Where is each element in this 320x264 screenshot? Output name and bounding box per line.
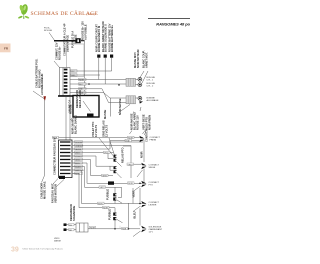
connector pair CP4 — [113, 213, 116, 216]
svg-text:CYL. 2: CYL. 2 — [147, 86, 154, 88]
label column under module L1 — [91, 122, 95, 137]
wire P2 pin4 to CP1 — [74, 152, 114, 154]
model rule line — [148, 18, 190, 20]
wire seat switch feed — [128, 163, 142, 165]
svg-text:FREIN: FREIN — [150, 140, 157, 142]
switch SW5 — [141, 226, 146, 229]
svg-text:BLEU: BLEU — [98, 203, 104, 205]
svg-text:MAG: MAG — [71, 74, 76, 77]
label drop-wire column — [80, 21, 84, 40]
FR side tab — [0, 44, 11, 53]
svg-text:ARRET MOT.: ARRET MOT. — [144, 52, 148, 68]
svg-text:BORNE BATTERIE B+: BORNE BATTERIE B+ — [110, 25, 114, 52]
svg-text:AU FUSIBLE: AU FUSIBLE — [83, 24, 87, 40]
wire P2 pin9 to PTO bus — [74, 170, 82, 204]
svg-text:NOIR: NOIR — [140, 151, 144, 158]
spark plug 1a — [136, 79, 139, 81]
svg-text:FUSIBLE: FUSIBLE — [108, 209, 112, 220]
CP1 pin2 feed — [108, 153, 113, 159]
wire P2 pin5 to CP2 — [74, 156, 114, 166]
wire: diagonal lead into main feed — [49, 33, 55, 41]
pin terminal T1 — [97, 55, 100, 58]
wire J1 row2 — [70, 74, 100, 76]
fuse F1 20A — [76, 38, 81, 43]
leaders from cluster — [140, 107, 141, 111]
wire from T2 down — [104, 58, 106, 84]
svg-text:REGULATEUR: REGULATEUR — [78, 90, 82, 108]
label right of verticals — [69, 104, 73, 114]
svg-text:LEVIER: LEVIER — [149, 205, 157, 207]
switch SW1 — [139, 136, 144, 139]
svg-text:PTO: PTO — [149, 185, 154, 187]
J1 to harness verticals — [65, 97, 67, 140]
wire bend to coil 2 top — [104, 93, 127, 98]
plug leaders — [140, 71, 144, 78]
dashed tick on fuel bus — [119, 226, 121, 229]
label fusible column — [71, 31, 75, 48]
J1 pins — [64, 69, 68, 94]
connector pair CP3 — [113, 193, 116, 196]
svg-text:RGE: RGE — [126, 141, 131, 143]
wire: battery diagonal — [33, 91, 45, 99]
svg-text:RELAIS PTO: RELAIS PTO — [121, 147, 125, 163]
svg-text:12 VOLTS: 12 VOLTS — [105, 125, 109, 137]
wire P2 pin10 to CP4 — [74, 174, 116, 208]
wire J1 row5 — [70, 88, 102, 90]
label left of module — [68, 100, 72, 113]
P2 wire label boxes — [75, 141, 83, 144]
switch SW3 — [141, 181, 146, 184]
svg-text:SOLENOIDE: SOLENOIDE — [72, 205, 76, 221]
leader in module — [83, 101, 91, 112]
svg-text:39: 39 — [11, 247, 19, 254]
P2 exit stubs — [72, 142, 75, 174]
svg-text:RANSOMES 48 po: RANSOMES 48 po — [156, 22, 190, 27]
spark plug 1b — [136, 84, 139, 86]
label CP4 — [108, 209, 112, 220]
wire: vertical drop to module — [84, 41, 86, 96]
bus y183 — [87, 182, 146, 184]
wire from T3 down — [111, 58, 113, 71]
label CP1 — [121, 147, 125, 163]
svg-text:BLEU: BLEU — [133, 211, 137, 218]
wire J1 row3 to coil 1 — [70, 79, 126, 81]
bus wire y138 — [52, 137, 143, 139]
label commutateur column B — [63, 23, 67, 56]
svg-text:CONNECTEUR FAISCEAU 10V: CONNECTEUR FAISCEAU 10V — [53, 137, 57, 175]
wire J1 row6 — [70, 92, 104, 94]
page background — [0, 0, 200, 259]
ladder foot diagonals — [53, 179, 58, 185]
svg-text:BORNE SOLENOIDE S: BORNE SOLENOIDE S — [104, 24, 108, 52]
svg-text:ROUGE 12V: ROUGE 12V — [136, 115, 140, 130]
svg-text:ROUGE: ROUGE — [69, 104, 73, 114]
solenoid feed pins — [64, 223, 67, 226]
svg-text:BORNE MAGNETO M: BORNE MAGNETO M — [97, 26, 101, 52]
svg-text:BLANC: BLANC — [75, 165, 82, 168]
CP3 stub top — [114, 187, 116, 193]
wire bend to coil 2 bottom — [102, 89, 126, 103]
svg-text:DEMARRAGE: DEMARRAGE — [66, 35, 70, 52]
svg-text:ROUGE: ROUGE — [74, 34, 78, 44]
label right top column A — [133, 52, 137, 68]
svg-text:CYL. 1: CYL. 1 — [147, 80, 154, 82]
red polarity mark — [43, 96, 46, 101]
wire label RGE — [53, 136, 59, 139]
wire: main top feed (thick) — [54, 40, 76, 42]
label P2 — [53, 137, 57, 175]
bus y203.5 — [82, 203, 147, 205]
connector J1 ladder — [60, 68, 71, 96]
svg-text:ORANGE: ORANGE — [75, 144, 84, 147]
vertical x128 — [128, 203, 130, 229]
wire J1 row1 to terminal B — [70, 70, 112, 72]
CP4 stub top — [114, 208, 116, 213]
coil leader diagonal — [118, 105, 130, 114]
svg-text:GRIS: GRIS — [102, 176, 107, 178]
svg-text:MARRON: MARRON — [75, 169, 84, 172]
connector pair CP2 — [114, 166, 117, 169]
spark plug 2 — [136, 97, 139, 99]
ignition coil 1 — [126, 78, 136, 86]
leader to SW1 — [145, 129, 147, 135]
wire labels lower — [99, 186, 106, 189]
CP2 pin2 feed — [110, 166, 113, 170]
label CP3 — [106, 189, 110, 200]
label right of module — [118, 98, 122, 115]
plug 2 terminal arrow — [139, 101, 143, 103]
leader to CP1 — [99, 138, 113, 156]
label solenoid — [69, 204, 73, 221]
svg-text:©2001 Textron Golf, Turf & Spe: ©2001 Textron Golf, Turf & Specialty Pro… — [22, 247, 63, 250]
svg-text:12 VOLTS: 12 VOLTS — [94, 125, 98, 137]
CP3 stub bottom — [114, 201, 116, 204]
wire P2 pin6 — [74, 160, 114, 176]
leader to SW3 — [133, 186, 141, 192]
svg-text:JAUNE: JAUNE — [75, 148, 82, 151]
svg-text:NOIR MOTEUR: NOIR MOTEUR — [136, 49, 140, 68]
switch SW4 — [141, 201, 146, 204]
junction dot a — [88, 83, 90, 85]
svg-text:SIEGE: SIEGE — [149, 167, 156, 169]
svg-text:(suite): (suite) — [87, 12, 95, 16]
wire battery to bottom — [42, 175, 45, 183]
switch SW2 — [141, 163, 146, 166]
regulator module box — [73, 96, 99, 118]
wire SW1 down — [143, 140, 145, 162]
svg-text:ALLUMAGE: ALLUMAGE — [147, 99, 159, 102]
key switch module outline — [67, 44, 85, 77]
solenoid output bus — [88, 228, 140, 230]
label inside module — [75, 90, 79, 108]
svg-text:RGE: RGE — [122, 229, 127, 231]
svg-text:FUSIBLE: FUSIBLE — [106, 189, 110, 200]
label pin T3 — [107, 23, 111, 52]
pin terminal T3 — [110, 55, 113, 58]
wire stub y146 — [123, 145, 131, 147]
mid vertical x133 — [132, 188, 134, 204]
label battery bottom B — [51, 183, 55, 203]
leader to CP2 — [109, 138, 116, 159]
wire P2 pin8 to CP3 — [74, 167, 122, 198]
wire from T1 down — [98, 58, 100, 80]
battery lead label column — [35, 58, 39, 88]
wire P2 pin7 to seat bus — [74, 163, 88, 183]
wire P2 pin3 to brake switch — [74, 141, 144, 150]
wire label VIO — [104, 151, 111, 154]
svg-text:VERS MOTEUR: VERS MOTEUR — [54, 184, 58, 203]
wire right of module — [110, 98, 112, 117]
mid-right label cluster — [130, 113, 134, 130]
CP4 stub bottom — [114, 220, 116, 229]
label pin T2 — [101, 21, 105, 52]
wire: fuse to corner — [81, 40, 85, 42]
leader to SW5 — [133, 231, 141, 237]
label right top column B — [141, 50, 145, 68]
leader to SW4 — [133, 206, 141, 212]
label battery bottom A — [40, 183, 44, 199]
connector pair CP1 — [114, 155, 117, 158]
svg-text:12 V: 12 V — [149, 232, 154, 234]
junction dot b — [118, 84, 120, 86]
svg-text:MASSE: MASSE — [103, 110, 107, 119]
svg-text:VIO: VIO — [104, 153, 108, 155]
svg-text:ROUGE: ROUGE — [44, 30, 53, 32]
main harness connector P2 — [59, 140, 73, 179]
svg-text:VERT: VERT — [132, 190, 136, 197]
leader to J1 — [54, 61, 60, 68]
svg-text:VERT: VERT — [100, 187, 106, 189]
label SW1 — [145, 129, 149, 142]
svg-text:CONTACT: CONTACT — [145, 129, 149, 142]
leaf logo — [18, 3, 30, 19]
svg-text:BLANC 16AWG: BLANC 16AWG — [74, 115, 78, 134]
junction dots lower — [139, 183, 141, 185]
svg-text:ROUGE B+: ROUGE B+ — [58, 46, 62, 60]
wire P2 pin2 — [74, 146, 132, 179]
ignition coil 2 — [126, 96, 136, 104]
J1 wire label boxes — [71, 70, 78, 73]
module connector — [87, 114, 94, 118]
seat connector on bus — [108, 181, 114, 184]
svg-text:NOIR FREIN: NOIR FREIN — [148, 115, 152, 130]
bus label — [128, 136, 135, 139]
leader to SW2 — [137, 170, 143, 177]
pin terminal T2 — [104, 55, 107, 58]
label pin T1 — [95, 24, 99, 52]
svg-text:NOIR: NOIR — [128, 183, 133, 185]
svg-text:MASSE: MASSE — [54, 240, 62, 243]
svg-text:NOIR: NOIR — [90, 228, 95, 230]
starter solenoid body — [76, 223, 88, 232]
wire J1 row4 to coil 1 — [70, 83, 126, 85]
wire: long battery vertical — [44, 100, 46, 175]
svg-text:MASSE CHAS.: MASSE CHAS. — [43, 181, 47, 199]
label column under module L2 — [102, 120, 106, 137]
bend tick — [70, 119, 72, 121]
svg-text:VERT: VERT — [128, 164, 134, 166]
wire label GRIS — [102, 174, 109, 177]
label masse col — [103, 110, 107, 119]
label commutateur column A — [55, 42, 59, 60]
J1 base rail (thick) — [58, 95, 74, 97]
wire P2 pin1 to brake switch — [74, 141, 144, 143]
svg-text:AU DEMARREUR: AU DEMARREUR — [40, 74, 44, 95]
